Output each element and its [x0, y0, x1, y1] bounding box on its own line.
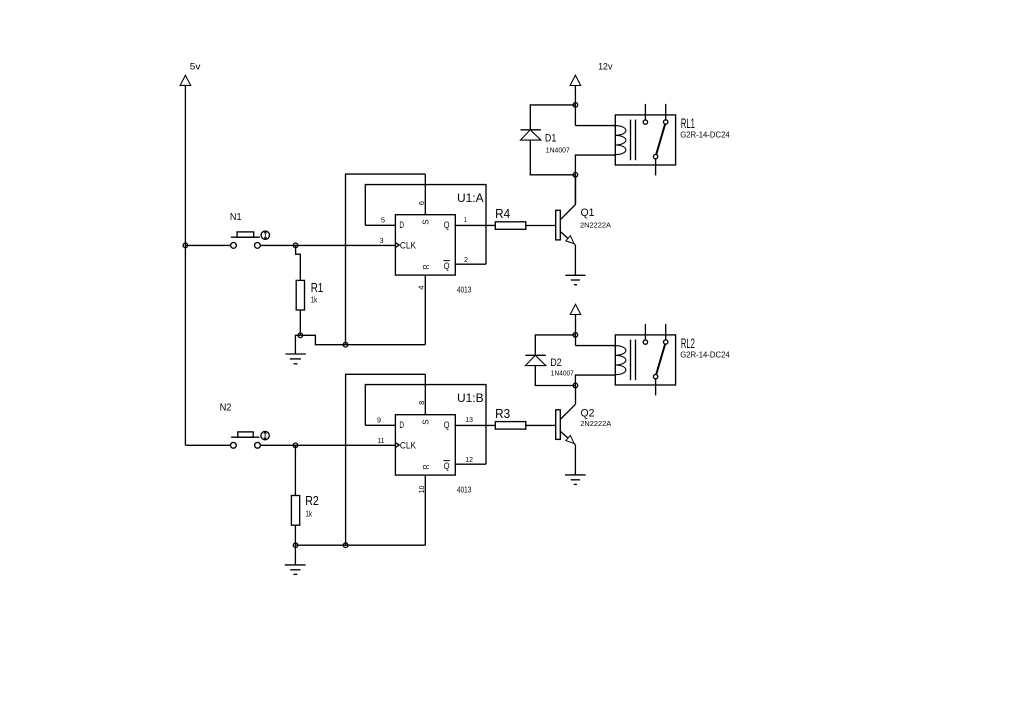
- switch N2: [231, 431, 270, 448]
- U1:B part number 4013: [457, 485, 472, 494]
- svg-text:2N2222A: 2N2222A: [580, 221, 611, 230]
- wire S loop 1: [346, 174, 426, 345]
- U1:A pin number 2: [464, 257, 468, 264]
- svg-text:D2: D2: [550, 357, 562, 369]
- U1:B pin label R: [421, 464, 431, 469]
- svg-text:12v: 12v: [598, 61, 613, 71]
- svg-text:12: 12: [465, 457, 473, 464]
- U1:B pin label Qbar: [443, 461, 449, 471]
- wire coil bottom 2: [575, 375, 615, 385]
- svg-text:9: 9: [377, 418, 381, 425]
- svg-text:D1: D1: [545, 133, 557, 145]
- wire R1 top lead: [296, 245, 301, 280]
- wire N2 row left: [185, 444, 230, 446]
- ground GND2: [285, 565, 306, 575]
- U1:A pin label D: [399, 220, 404, 230]
- U1:B pin number 10: [417, 486, 426, 494]
- ground Q2 emitter: [565, 475, 586, 485]
- diode D2 label: [550, 357, 562, 369]
- wire coil top 2: [575, 345, 615, 347]
- wire 12v stem 2: [575, 315, 577, 346]
- node N1-R1 junction: [293, 243, 298, 248]
- relay RL1: [615, 104, 675, 175]
- power 5v arrow: [180, 75, 191, 85]
- svg-text:S: S: [421, 419, 431, 425]
- node rail-N1 junction: [183, 243, 188, 248]
- U1:B pin number 11: [378, 438, 385, 445]
- diode D1 part 1N4007: [546, 146, 570, 155]
- svg-text:R1: R1: [311, 281, 324, 295]
- diode D2 part 1N4007: [551, 369, 574, 378]
- switch N1: [231, 231, 270, 248]
- U1:A pin label S: [421, 219, 431, 225]
- power 5v label: [190, 62, 201, 72]
- resistor R4 label: [495, 207, 510, 221]
- wire D1 top: [530, 105, 575, 130]
- svg-text:CLK: CLK: [400, 241, 416, 251]
- svg-text:RL1: RL1: [681, 115, 695, 131]
- wire coil top 1: [575, 125, 615, 127]
- svg-text:5v: 5v: [190, 62, 201, 72]
- switch N1 label: [230, 211, 242, 223]
- wire ground rail 2: [295, 544, 425, 546]
- diode D2: [525, 355, 545, 365]
- node 12v junction 1: [573, 103, 578, 108]
- svg-text:Q2: Q2: [581, 408, 595, 420]
- resistor R1 value 1k: [311, 295, 318, 305]
- svg-text:CLK: CLK: [400, 441, 416, 451]
- wire R2 top lead: [294, 445, 296, 495]
- resistor R1: [296, 280, 304, 310]
- transistor Q2 part 2N2222A: [580, 419, 611, 428]
- svg-text:1k: 1k: [311, 295, 318, 305]
- svg-text:U1:B: U1:B: [457, 391, 484, 405]
- wire D2 bottom: [535, 366, 575, 386]
- svg-text:N2: N2: [220, 401, 232, 413]
- svg-text:R: R: [421, 464, 431, 469]
- svg-text:D: D: [399, 420, 404, 430]
- node D2-collector junction 2: [573, 383, 578, 388]
- svg-text:6: 6: [417, 201, 426, 205]
- svg-text:Q: Q: [444, 420, 450, 430]
- wire D pin 5: [365, 224, 395, 226]
- wire S loop 2: [346, 374, 426, 545]
- svg-text:8: 8: [417, 401, 426, 405]
- resistor R2 value 1k: [306, 508, 313, 518]
- diode D1: [521, 130, 541, 140]
- resistor R3: [495, 422, 526, 430]
- U1:B pin number 12: [465, 457, 473, 464]
- wire N1 row left: [185, 244, 230, 246]
- node 12v junction 2: [573, 333, 578, 338]
- svg-text:4013: 4013: [457, 285, 472, 294]
- wire Qbar-D feedback 2: [365, 385, 486, 465]
- svg-text:R: R: [421, 264, 431, 269]
- svg-text:13: 13: [465, 417, 473, 424]
- U1:B pin number 8: [417, 401, 426, 405]
- node N2-R2 junction: [293, 443, 298, 448]
- ground GND1: [285, 354, 306, 364]
- resistor R4: [495, 222, 526, 230]
- wire R pin 4 stem: [424, 275, 426, 345]
- wire R1 bottom lead: [299, 310, 301, 335]
- wire R pin 10 stem: [424, 475, 426, 545]
- wire Qbar-D feedback 1: [365, 185, 486, 265]
- node R1-ground junction: [298, 333, 303, 338]
- wire Q1 emitter: [574, 245, 576, 275]
- wire N1 to CLK: [260, 244, 395, 246]
- U1:A pin number 3: [380, 238, 384, 245]
- node D1-collector junction 1: [573, 173, 578, 178]
- wire Q pin 13: [455, 424, 495, 426]
- svg-text:4: 4: [416, 286, 425, 290]
- transistor Q2 label: [581, 408, 595, 420]
- svg-text:Q: Q: [444, 220, 450, 230]
- svg-text:1N4007: 1N4007: [551, 369, 574, 378]
- power 12v arrow 1: [570, 75, 581, 85]
- wire D1 bottom: [530, 140, 575, 175]
- wire 12v stem 1: [574, 86, 576, 126]
- svg-text:R2: R2: [305, 494, 319, 508]
- op-amp U1:B body: [395, 415, 455, 475]
- svg-text:N1: N1: [230, 211, 242, 223]
- U1:A pin number 5: [381, 218, 385, 225]
- U1:A pin label R: [421, 264, 431, 269]
- wire Qbar pin 12: [455, 463, 486, 465]
- U1:B pin number 13: [465, 417, 473, 424]
- U1:B pin label Q: [444, 420, 450, 430]
- wire Q pin 1: [455, 224, 495, 226]
- svg-text:2N2222A: 2N2222A: [580, 419, 611, 428]
- wire Qbar pin 2: [455, 263, 486, 265]
- wire Q2 emitter: [574, 445, 576, 475]
- svg-text:Q: Q: [444, 461, 450, 471]
- ground Q1 emitter: [565, 275, 585, 284]
- U1:A pin label Q: [444, 220, 450, 230]
- wire D2 top: [535, 335, 575, 355]
- svg-text:R3: R3: [495, 407, 510, 421]
- relay RL1 label: [681, 115, 695, 131]
- U1:A pin number 4: [416, 286, 425, 290]
- svg-text:G2R-14-DC24: G2R-14-DC24: [680, 351, 730, 360]
- svg-text:Q1: Q1: [581, 207, 595, 219]
- wire 5v rail: [184, 85, 186, 445]
- wire Q2 collector: [575, 386, 577, 405]
- svg-text:D: D: [399, 220, 404, 230]
- U1:B pin label CLK: [400, 441, 416, 451]
- power 12v arrow 2: [570, 304, 581, 314]
- wire ground rail 1: [300, 335, 425, 344]
- svg-text:10: 10: [417, 486, 426, 494]
- svg-text:2: 2: [464, 257, 468, 264]
- U1:B pin label D: [399, 420, 404, 430]
- wire Q1 collector: [575, 175, 577, 205]
- wire D pin 9: [365, 424, 395, 426]
- U1:B designator label: [457, 391, 484, 405]
- switch N2 label: [220, 401, 232, 413]
- svg-text:R4: R4: [495, 207, 510, 221]
- svg-text:G2R-14-DC24: G2R-14-DC24: [680, 131, 730, 140]
- U1:B pin label S: [421, 419, 431, 425]
- svg-text:1: 1: [464, 217, 467, 224]
- wire N2 to CLK: [260, 444, 395, 446]
- resistor R2: [291, 496, 299, 526]
- U1:A pin number 6: [417, 201, 426, 205]
- svg-text:U1:A: U1:A: [457, 191, 484, 205]
- svg-text:3: 3: [380, 238, 384, 245]
- wire S pin 8 stem: [424, 374, 426, 414]
- node SR-ground junction 1: [343, 342, 348, 347]
- svg-text:11: 11: [378, 438, 385, 445]
- svg-text:1N4007: 1N4007: [546, 146, 570, 155]
- transistor Q1 label: [581, 207, 595, 219]
- node SR-ground junction 2: [343, 543, 348, 548]
- svg-text:RL2: RL2: [681, 335, 695, 351]
- U1:B pin number 9: [377, 418, 381, 425]
- U1:A part number 4013: [457, 285, 472, 294]
- relay RL2: [615, 324, 675, 396]
- svg-text:4013: 4013: [457, 485, 472, 494]
- wire S pin 6 stem: [424, 174, 426, 215]
- relay RL2 label: [681, 335, 695, 351]
- op-amp U1:A body: [395, 215, 455, 275]
- U1:A pin number 1: [464, 217, 467, 224]
- wire junction to collector 1: [574, 175, 576, 205]
- power 12v label: [598, 61, 613, 71]
- wire to ground 2: [294, 545, 296, 565]
- transistor Q1: [556, 204, 576, 244]
- transistor Q2: [556, 404, 576, 444]
- resistor R1 label: [311, 281, 324, 295]
- node R2-ground junction: [293, 543, 298, 548]
- diode D1 label: [545, 133, 557, 145]
- svg-text:5: 5: [381, 218, 385, 225]
- svg-text:1k: 1k: [306, 508, 313, 518]
- transistor Q1 part 2N2222A: [580, 221, 611, 230]
- svg-text:Q: Q: [444, 261, 450, 271]
- resistor R2 label: [305, 494, 319, 508]
- U1:A pin label CLK: [400, 241, 416, 251]
- relay RL2 part G2R-14-DC24: [680, 351, 730, 360]
- U1:A pin label Qbar: [443, 261, 449, 271]
- wire coil bottom 1: [575, 155, 615, 175]
- wire R2 bottom lead: [294, 525, 296, 545]
- svg-text:S: S: [421, 219, 431, 225]
- wire R3 to base: [526, 424, 556, 426]
- wire to ground 1: [295, 335, 300, 354]
- wire R4 to base: [526, 225, 556, 227]
- resistor R3 label: [495, 407, 510, 421]
- relay RL1 part G2R-14-DC24: [680, 131, 730, 140]
- U1:A designator label: [457, 191, 484, 205]
